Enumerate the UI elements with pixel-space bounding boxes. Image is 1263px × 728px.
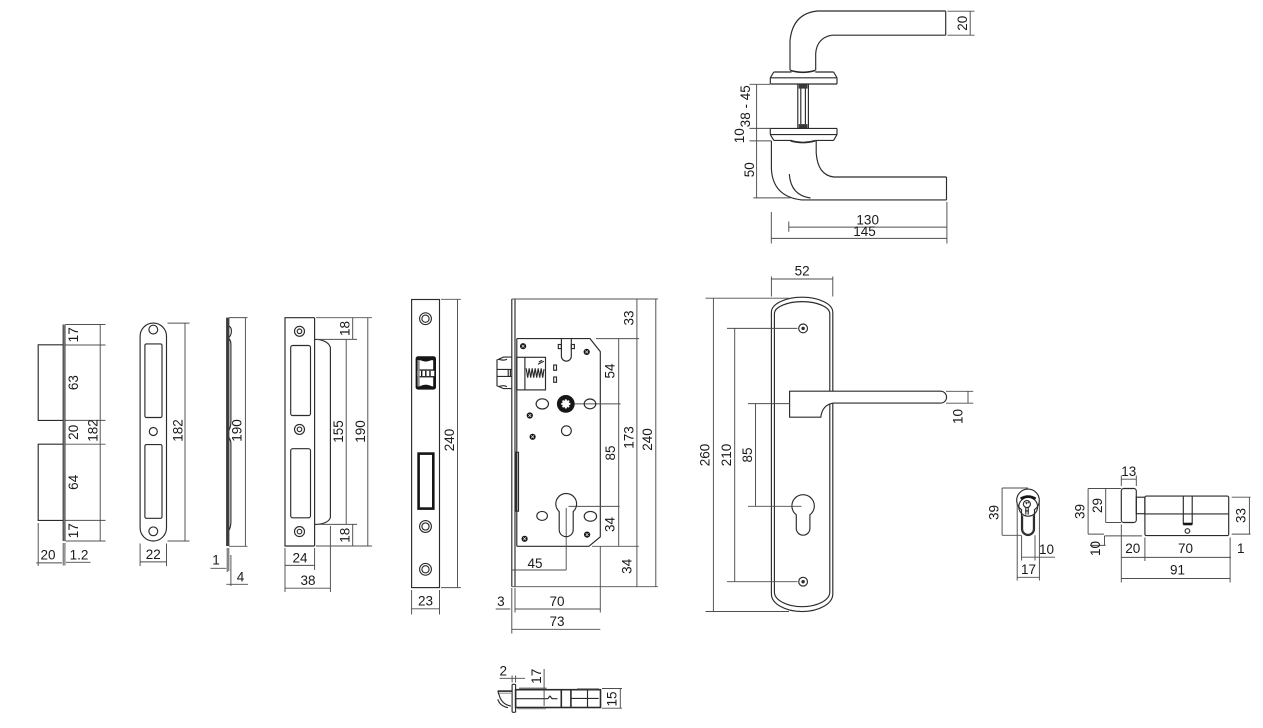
- svg-text:190: 190: [230, 419, 245, 442]
- svg-text:24: 24: [292, 550, 308, 565]
- svg-text:33: 33: [621, 310, 636, 325]
- svg-text:39: 39: [1072, 504, 1087, 519]
- svg-text:210: 210: [719, 444, 734, 467]
- svg-text:33: 33: [1233, 508, 1248, 523]
- svg-text:20: 20: [955, 16, 970, 31]
- svg-text:260: 260: [698, 444, 713, 467]
- svg-text:15: 15: [604, 691, 619, 706]
- svg-text:17: 17: [66, 327, 81, 342]
- svg-text:240: 240: [442, 429, 457, 452]
- svg-text:54: 54: [603, 363, 618, 379]
- svg-text:70: 70: [1178, 541, 1193, 556]
- svg-text:64: 64: [66, 474, 81, 490]
- svg-text:145: 145: [853, 224, 876, 239]
- svg-text:10: 10: [732, 128, 747, 143]
- svg-text:18: 18: [337, 528, 352, 543]
- svg-text:190: 190: [353, 420, 368, 443]
- svg-text:3: 3: [497, 594, 505, 609]
- svg-text:17: 17: [66, 523, 81, 538]
- svg-text:10: 10: [1088, 541, 1103, 556]
- svg-text:38: 38: [300, 573, 315, 588]
- svg-text:182: 182: [170, 419, 185, 442]
- svg-text:173: 173: [621, 426, 636, 449]
- svg-text:70: 70: [549, 594, 564, 609]
- svg-text:10: 10: [950, 409, 965, 424]
- svg-text:38 - 45: 38 - 45: [738, 85, 753, 127]
- svg-text:240: 240: [640, 428, 655, 451]
- svg-text:50: 50: [742, 162, 757, 177]
- svg-text:1.2: 1.2: [70, 547, 89, 562]
- svg-text:85: 85: [740, 447, 755, 462]
- svg-text:20: 20: [40, 547, 55, 562]
- svg-text:22: 22: [146, 547, 161, 562]
- svg-text:52: 52: [795, 264, 810, 279]
- svg-text:20: 20: [1125, 541, 1140, 556]
- svg-text:63: 63: [66, 375, 81, 390]
- svg-text:34: 34: [619, 558, 634, 574]
- svg-text:17: 17: [1021, 562, 1036, 577]
- svg-text:39: 39: [986, 505, 1001, 520]
- svg-text:1: 1: [212, 553, 220, 568]
- svg-text:182: 182: [85, 419, 100, 442]
- svg-text:85: 85: [603, 445, 618, 460]
- svg-text:10: 10: [1039, 542, 1054, 557]
- svg-text:155: 155: [331, 420, 346, 443]
- svg-text:1: 1: [1237, 541, 1245, 556]
- svg-text:13: 13: [1121, 464, 1136, 479]
- svg-text:34: 34: [603, 517, 618, 533]
- svg-text:17: 17: [529, 669, 544, 684]
- svg-text:20: 20: [66, 425, 81, 440]
- svg-text:18: 18: [337, 321, 352, 336]
- svg-text:4: 4: [237, 570, 245, 585]
- svg-text:73: 73: [549, 614, 564, 629]
- svg-text:29: 29: [1090, 498, 1105, 513]
- svg-text:91: 91: [1170, 562, 1185, 577]
- svg-text:23: 23: [418, 594, 433, 609]
- svg-text:45: 45: [527, 556, 542, 571]
- svg-text:2: 2: [500, 664, 508, 679]
